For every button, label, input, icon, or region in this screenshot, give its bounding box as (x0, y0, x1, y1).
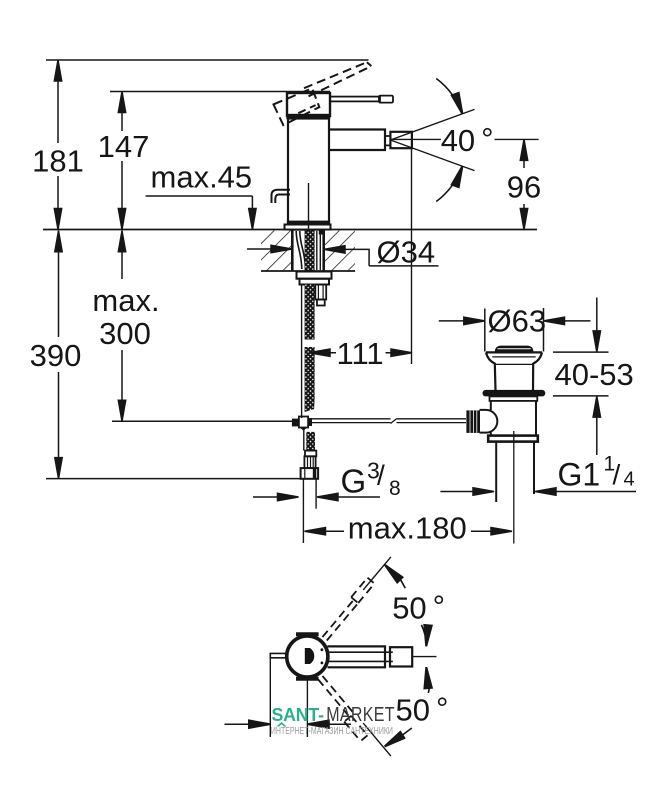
faucet base flange (285, 225, 331, 230)
body center line (308, 183, 310, 229)
horizontal pop-up rod (312, 419, 466, 423)
plan aerator (390, 647, 412, 666)
threaded shank braid (305, 231, 315, 272)
dim 34 right leader (345, 249, 439, 266)
dim G3/8 arrows (253, 496, 380, 498)
dim 96 line (523, 139, 525, 229)
-50 arc upper stub (428, 688, 429, 694)
rod break mark (391, 419, 397, 424)
flexible hose braid middle (305, 347, 315, 400)
plan left tab (270, 653, 285, 657)
spray fan upper line (390, 109, 474, 140)
40deg bottom arc (436, 166, 462, 201)
+50 arc upper stub (400, 578, 406, 588)
drain rod piston (480, 410, 498, 433)
flexible hose braid flag end (305, 400, 315, 412)
hose collar (305, 451, 316, 457)
faucet cap bottom band (287, 114, 330, 119)
watermark SANT-MARKET (271, 703, 395, 736)
plan cartridge D mark (305, 648, 315, 664)
svg-text:SANT-: SANT- (272, 705, 324, 725)
dim G1 1/4 arrows (440, 491, 636, 493)
plan left extension line (269, 658, 271, 737)
pop-up rod guide taper (317, 300, 325, 306)
pop-up actuator hook (272, 190, 291, 203)
drain plug knob white line (498, 348, 531, 350)
G3/8 tail right line (315, 479, 317, 509)
plan dot upper (321, 648, 324, 651)
dim 96 arrows (520, 139, 527, 160)
drain plug knob disc (495, 346, 534, 352)
ghost lever +50 rod dashes (323, 600, 358, 640)
drain plug inner lines (492, 357, 535, 365)
svg-text:ИНТЕРНЕТ-МАГАЗИН САНТЕХНИКИ: ИНТЕРНЕТ-МАГАЗИН САНТЕХНИКИ (271, 725, 393, 737)
drain tailpipe left (495, 442, 497, 502)
drain plug knob bottom band (495, 350, 533, 352)
svg-text:300: 300 (99, 316, 151, 351)
pop-up rod guide inner (318, 285, 323, 300)
plan spout axis line (412, 656, 436, 658)
pop-up rod guide (315, 285, 326, 300)
ghost lever -50 rod dashes (318, 676, 353, 716)
40-53 top reference line (553, 351, 609, 353)
watermark caret (277, 722, 287, 727)
dim 63 line right (565, 320, 591, 322)
svg-text:40°: 40° (441, 122, 494, 159)
svg-text:96: 96 (507, 170, 541, 205)
svg-text:147: 147 (98, 129, 150, 164)
svg-text:Ø63: Ø63 (488, 304, 547, 339)
hose ribs (308, 456, 314, 468)
dim 147 line (121, 92, 123, 230)
+50 axis solid line (363, 557, 391, 590)
dim max300 line (121, 231, 123, 421)
flexible hose braid lower (306, 432, 315, 451)
pop-up rod in shank (317, 231, 321, 270)
dashed ghost lever bottom edge (309, 66, 372, 96)
dim 181 arrows (54, 60, 61, 81)
390 bottom reference line (46, 478, 301, 480)
top reference line 181 (46, 59, 369, 61)
faucet body bottom dark band (287, 221, 330, 225)
dim 40-53 top shaft (596, 298, 598, 333)
deck hole right edge (322, 231, 325, 271)
svg-text:181: 181 (32, 144, 84, 179)
spout axis line (390, 138, 538, 140)
svg-text:max.45: max.45 (151, 160, 253, 195)
faucet cap (287, 93, 330, 116)
dashed ghost cap band line (287, 105, 316, 119)
dashed ghost lever top edge (304, 62, 367, 88)
dashed ghost cap outline (274, 88, 320, 125)
svg-text:max.180: max.180 (348, 511, 467, 546)
counter hatched block right part (324, 231, 355, 271)
max300 bottom reference line (112, 420, 292, 422)
svg-text:50°: 50° (392, 589, 445, 626)
spout (330, 130, 385, 151)
drain rod knob knurl (470, 410, 477, 433)
plan view bottom flat chord (296, 677, 319, 681)
fitting lower triangle (300, 428, 307, 431)
dim 111 line (330, 352, 391, 354)
svg-text:G: G (341, 463, 367, 500)
pop-up rod fitting black right (308, 418, 312, 426)
hose curve in shank (296, 231, 302, 269)
spout neck (385, 136, 390, 145)
max45 leader (146, 196, 253, 230)
plan view top flat chord (296, 632, 319, 636)
flexible hose braid upper (305, 285, 315, 340)
dim max300 arrows (118, 231, 125, 252)
spray fan lower line (390, 140, 474, 171)
counter top line (43, 229, 537, 231)
40-53 bottom reference line (553, 395, 609, 397)
hose lower left line (303, 428, 305, 451)
svg-text:8: 8 (389, 477, 401, 500)
dim 40-53 bottom shaft (596, 416, 598, 455)
hose curve in shank 2 (300, 231, 306, 269)
svg-text:MARKET: MARKET (326, 703, 395, 725)
lever grip (379, 96, 393, 103)
plan center extension line (306, 680, 308, 737)
drain body left edge (490, 401, 492, 436)
dim 63 extension left (484, 309, 486, 352)
G3/8 tail left line (302, 479, 304, 543)
svg-text:/: / (377, 460, 385, 491)
drain center line (513, 431, 515, 544)
drain rod knob (466, 410, 480, 433)
faucet body column (288, 119, 329, 223)
dim 63 line left (439, 320, 464, 322)
drain plug body (486, 352, 542, 390)
drain body bottom band (488, 436, 538, 442)
drain flange (490, 396, 538, 401)
pop-up rod notch (319, 231, 323, 235)
plan dot lower (321, 662, 324, 665)
dim 63 extension right (543, 308, 545, 352)
counter bottom line (261, 270, 355, 272)
40deg bottom arc arrowhead (452, 165, 466, 187)
ghost lever -50 grip (344, 716, 367, 741)
max45 arrow (249, 209, 256, 230)
dim 390 line (58, 231, 60, 479)
+50 arc lower stub (421, 625, 425, 635)
plan spout outer (328, 646, 386, 667)
deck hole left edge (291, 231, 294, 271)
outlet axis vertical line (411, 149, 413, 365)
dim 34 left arrow line (247, 248, 271, 250)
plan spout inner lines (328, 652, 393, 661)
dashed ghost lever tip cap (367, 62, 372, 66)
svg-text:Ø34: Ø34 (377, 235, 436, 270)
reference line 147 / cap top (110, 91, 330, 93)
svg-text:40-53: 40-53 (555, 357, 634, 392)
svg-text:50°: 50° (396, 691, 449, 728)
hose nut inner line (304, 468, 306, 479)
svg-text:4: 4 (624, 469, 635, 491)
svg-text:390: 390 (30, 338, 82, 373)
plan view body circle (287, 636, 328, 677)
-50 axis solid line (363, 723, 391, 756)
plan spout neck (384, 646, 386, 667)
hose nut G3/8 (301, 468, 319, 479)
pop-up rod fitting body (299, 417, 308, 428)
-50 arc lower stub (402, 728, 412, 735)
40deg top arc (436, 79, 462, 114)
hose ribbed section (304, 456, 315, 468)
svg-text:/: / (613, 459, 621, 490)
dim 147 arrows (118, 92, 125, 113)
hose left line (301, 285, 303, 419)
svg-text:111: 111 (337, 336, 384, 371)
drain tailpipe right (533, 442, 535, 494)
drain seal ring (483, 390, 546, 397)
lever rod (330, 97, 380, 102)
counter hatched block left part (261, 231, 292, 271)
plan dim arrows (225, 723, 352, 725)
dim 181 line (57, 60, 59, 230)
mounting nut (300, 279, 330, 285)
aerator (390, 132, 412, 148)
drain body right edge (535, 401, 537, 436)
svg-text:max.: max. (92, 283, 159, 318)
dim max180 line (325, 530, 491, 532)
hose nut shading (313, 468, 317, 479)
mounting washer (297, 272, 332, 279)
svg-text:G1: G1 (558, 457, 601, 493)
40deg top arc arrowhead (452, 93, 466, 115)
dim 390 arrows (55, 231, 62, 252)
ghost lever +50 grip (351, 578, 374, 603)
pop-up rod fitting black left (292, 419, 299, 427)
